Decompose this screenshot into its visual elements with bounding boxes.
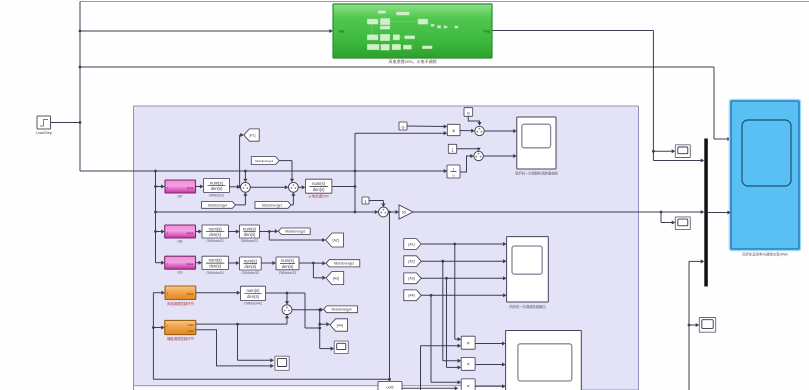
wire: 1b to sumB	[457, 148, 481, 152]
wire: to green subsystem input	[80, 29, 333, 33]
transfer fcn OilMotor42	[240, 286, 265, 306]
mux	[704, 139, 708, 287]
wire: storage out1 to scopeA	[238, 324, 274, 362]
step source LoadStep	[36, 116, 52, 135]
svg-text:×: ×	[467, 384, 470, 390]
constant G1	[399, 122, 407, 130]
svg-text:OilMotor21: OilMotor21	[206, 239, 224, 243]
wire: MotorEnergy to sum2 bottom	[291, 192, 295, 205]
wire: feedback to storage block	[153, 325, 164, 329]
wire: from tag to scope1 in4	[421, 293, 506, 297]
transfer fcn OilMotor21	[202, 225, 228, 243]
product x3	[461, 379, 475, 390]
sumA	[475, 126, 484, 135]
svg-text:风电调频控制环节: 风电调频控制环节	[167, 301, 195, 306]
svg-text:储能调频控制环节: 储能调频控制环节	[167, 336, 195, 341]
wire: delta-f to Display2	[661, 212, 675, 225]
wire: to goto A3	[313, 263, 326, 280]
svg-text:num(s): num(s)	[312, 181, 326, 186]
constant 1	[362, 197, 369, 204]
wire: main left vertical rail x=80	[79, 2, 82, 172]
svg-text:火电渗透20%: 火电渗透20%	[308, 193, 328, 198]
svg-text:num(s): num(s)	[210, 180, 224, 185]
wire: OilMotor32 to 33	[261, 261, 276, 265]
svg-text:Out1: Out1	[187, 231, 194, 235]
wire: GP to OilMotor1	[196, 184, 204, 188]
svg-text:OilMotor42: OilMotor42	[244, 302, 262, 306]
wire: feedback to governor rail	[152, 293, 390, 380]
goto tag MotorEnergy3	[326, 260, 360, 267]
wire: LoadStep output to junction	[51, 121, 82, 124]
wire: governor rail	[154, 171, 165, 265]
transfer fcn OilMotor33	[276, 257, 299, 275]
wire: top feedback line	[80, 1, 809, 3]
wire: x2 to scope2	[475, 362, 506, 366]
wire: x3 to scope2	[475, 384, 506, 388]
svg-text:G: G	[467, 110, 470, 115]
wire: to goto A4	[318, 310, 330, 349]
svg-text:同步机一次调频机组输出: 同步机一次调频机组输出	[509, 304, 545, 309]
svg-text:GP: GP	[177, 195, 183, 199]
wire: to goto P1	[240, 133, 244, 187]
wire: const1 to sum top	[369, 201, 385, 208]
scope1 outputs	[507, 237, 549, 309]
wire: OilMotor21 to OilMotor22	[228, 229, 239, 233]
svg-text:OilMotor22: OilMotor22	[241, 239, 259, 243]
display D3	[699, 318, 715, 333]
panel: frequency-response subsystem area	[134, 106, 639, 390]
svg-text:G: G	[401, 124, 404, 129]
svg-text:Pmg: Pmg	[483, 29, 490, 33]
transfer fcn OilMotor31	[202, 256, 228, 275]
wire: MotoEnergy3 to sum2 top	[279, 161, 294, 183]
wire: sum to gain	[388, 210, 399, 214]
wire: divide to sumB	[460, 154, 474, 172]
svg-text:Out1: Out1	[187, 292, 194, 296]
wire: green subsystem output Pmg	[492, 31, 655, 161]
svg-text:同步机一次调频机组转速曲线: 同步机一次调频机组转速曲线	[515, 171, 559, 176]
svg-text:den(s): den(s)	[211, 186, 223, 191]
wire: GS to OilMotor31	[196, 261, 203, 265]
goto tag P1	[244, 129, 259, 141]
panel bottom edge line	[134, 386, 506, 390]
svg-text:LoadStep: LoadStep	[36, 131, 52, 135]
wire: sumB to scope0	[483, 154, 517, 158]
svg-text:OilMotor33: OilMotor33	[279, 271, 297, 275]
svg-text:num(s): num(s)	[209, 258, 223, 263]
wire: delta-f feedback down	[388, 212, 391, 381]
wire: A2 branch to x2 in1	[443, 261, 461, 363]
goto tag A3	[326, 272, 344, 285]
svg-text:MotorEnergy4: MotorEnergy4	[332, 308, 352, 312]
wire: GB to OilMotor21	[196, 229, 203, 233]
scopeA small	[275, 356, 289, 370]
product x2	[461, 357, 475, 370]
product x1	[461, 336, 475, 349]
transfer fcn OilMotor32	[240, 257, 262, 275]
svg-text:风电渗透20%，火电不调频: 风电渗透20%，火电不调频	[388, 58, 436, 64]
wire: A1 branch to x1 in1	[455, 244, 461, 341]
wire: mux output to cyan scope in2	[708, 210, 731, 214]
wire: Pmg to Display1	[653, 149, 675, 153]
wire: from tag to scope1 in2	[421, 259, 506, 263]
svg-text:[A4]: [A4]	[408, 294, 414, 298]
svg-text:Out1: Out1	[187, 186, 194, 190]
from tag [A4]	[404, 290, 421, 301]
wire: G1 to product	[407, 124, 447, 128]
subsystem GS	[165, 256, 196, 275]
svg-text:Out2: Out2	[188, 329, 195, 333]
svg-text:MotoEnergy4: MotoEnergy4	[208, 203, 227, 207]
svg-text:[A2]: [A2]	[408, 260, 414, 264]
svg-text:OilMotor1: OilMotor1	[209, 194, 225, 198]
goto tag A4	[330, 319, 348, 331]
svg-text:den(s): den(s)	[244, 264, 256, 269]
scope: cyan output scope	[730, 100, 801, 257]
wire: to display S2	[320, 347, 335, 351]
wire: from tag to scope1 in3	[421, 276, 506, 280]
scope2 power	[506, 331, 582, 390]
sum1	[241, 182, 251, 192]
wire: wind to OilMotor42	[196, 291, 241, 295]
svg-text:num(s): num(s)	[281, 258, 295, 263]
wire: sum1 to sum2	[250, 185, 288, 189]
wire: rail to GB input	[156, 229, 165, 233]
wire: distribution vertical x=355	[354, 131, 448, 212]
wire: load into sum1 top	[243, 171, 247, 182]
svg-text:[A3]: [A3]	[333, 276, 339, 280]
wire: A3 branch to x2 in2	[447, 278, 462, 369]
wire: bottom signal to mux in3 and D3	[688, 259, 705, 390]
svg-text:[A3]: [A3]	[408, 277, 414, 281]
transfer fcn OilMotor1	[204, 179, 230, 198]
svg-text:MotorEnergy3: MotorEnergy3	[334, 262, 354, 266]
svg-text:num(s): num(s)	[209, 226, 223, 231]
svg-text:out5: out5	[387, 386, 394, 390]
svg-text:GB: GB	[177, 240, 183, 244]
svg-text:50: 50	[402, 211, 406, 215]
wire: OilMotor31 to 32	[228, 261, 239, 265]
subsystem storage control	[165, 320, 196, 341]
wire: sum2 to firepower tf	[298, 185, 305, 189]
from tag [A3]	[404, 273, 421, 284]
wire: to goto A2	[269, 232, 325, 243]
wire: feedback to wind block	[153, 291, 165, 295]
wire: rail to GP input	[156, 184, 165, 188]
display D2	[675, 217, 690, 230]
outport out5	[378, 382, 402, 390]
svg-text:|P1|: |P1|	[249, 133, 255, 137]
svg-text:den(s): den(s)	[282, 264, 294, 269]
svg-text:den(s): den(s)	[244, 232, 256, 237]
goto tag MotorEnergy2	[278, 228, 310, 234]
wire: storage out1 to sum bottom	[196, 315, 289, 326]
subsystem GB	[165, 225, 196, 244]
transfer fcn fire-power	[305, 179, 332, 198]
wire: delta-f main line to mux	[413, 210, 704, 214]
wire: OilMotor1 output to sum1	[229, 185, 241, 189]
wire: sum out to MotorEnergy4	[292, 308, 324, 312]
wire: from tag to scope1 in1	[421, 242, 506, 246]
svg-text:den(s): den(s)	[209, 232, 221, 237]
svg-text:num(s): num(s)	[246, 288, 260, 293]
wire: out5 into x3	[402, 386, 458, 390]
product block	[447, 124, 460, 135]
wire: Pmg to Mux in1	[653, 158, 704, 162]
svg-text:[A2]: [A2]	[332, 238, 338, 242]
wire: A4 branch to x3 in1	[431, 295, 461, 384]
svg-text:×: ×	[452, 129, 456, 135]
wire: bottom branch to x1 in2	[421, 344, 462, 390]
display S2	[334, 341, 348, 353]
from tag MotoEnergy3	[251, 157, 279, 165]
wire: sumA to scope0	[484, 129, 517, 133]
svg-text:MotoEnergy3: MotoEnergy3	[255, 159, 273, 163]
wire: G2 to sumA	[468, 116, 481, 125]
svg-text:GS: GS	[177, 271, 183, 275]
svg-text:OilMotor32: OilMotor32	[242, 271, 260, 275]
svg-text:×: ×	[467, 341, 470, 347]
svg-text:Out1: Out1	[188, 323, 195, 327]
subsystem GP	[165, 180, 196, 199]
svg-text:fuel: fuel	[339, 29, 344, 33]
wire: storage out2 to scopeA	[196, 330, 274, 368]
from tag [A2]	[404, 256, 421, 267]
wire: long line to delta-f sum	[156, 210, 379, 214]
svg-text:MotorEnergy1: MotorEnergy1	[262, 203, 282, 207]
svg-text:1: 1	[453, 167, 455, 171]
sumB	[474, 151, 483, 160]
goto tag MotorEnergy4	[324, 306, 358, 313]
sum delta-f	[379, 207, 389, 217]
sum2	[289, 182, 299, 192]
gain 50	[399, 205, 413, 219]
svg-text:num(s): num(s)	[243, 226, 257, 231]
wire: OilMotor22 out	[260, 229, 279, 233]
subsystem: wind-power green block	[333, 4, 492, 64]
wire: load branch to cyan scope in1	[80, 67, 731, 141]
svg-text:同步机及风电与调频功率(MW): 同步机及风电与调频功率(MW)	[742, 252, 788, 257]
subsystem wind control	[165, 286, 196, 306]
wire: OilMotor33 out	[299, 261, 326, 265]
svg-text:Out1: Out1	[187, 262, 194, 266]
divide block	[447, 165, 460, 178]
wire: OilMotor42 out	[266, 292, 322, 330]
from tag [A1]	[404, 239, 421, 250]
from tag MotorEnergy	[255, 202, 291, 209]
svg-text:OilMotor31: OilMotor31	[206, 271, 224, 275]
svg-text:[A1]: [A1]	[408, 242, 414, 246]
wire: firepower tf out to rail	[332, 186, 355, 188]
svg-text:num(s): num(s)	[244, 258, 258, 263]
svg-text:den(s): den(s)	[209, 264, 221, 269]
from tag MotoEnergy4	[202, 202, 236, 209]
svg-text:u: u	[453, 173, 455, 177]
wire: load line into panel to divide block	[80, 169, 447, 173]
scope0 speed curves	[515, 117, 559, 176]
svg-text:MotorEnergy2: MotorEnergy2	[285, 230, 305, 234]
sum wind-storage	[282, 305, 292, 315]
wire: product to sumA	[460, 129, 475, 133]
wire: MotoEnergy4 to sum1 bottom	[235, 192, 247, 205]
constant 1b	[448, 144, 456, 153]
svg-text:den(s): den(s)	[247, 294, 259, 299]
svg-text:den(s): den(s)	[313, 187, 325, 192]
svg-text:×: ×	[467, 362, 470, 368]
transfer fcn OilMotor22	[240, 225, 260, 243]
display D1	[675, 145, 690, 158]
wire: x1 to scope2	[475, 341, 506, 345]
constant G2	[464, 108, 473, 117]
svg-text:[A4]: [A4]	[337, 323, 343, 327]
goto tag A2	[326, 233, 344, 247]
